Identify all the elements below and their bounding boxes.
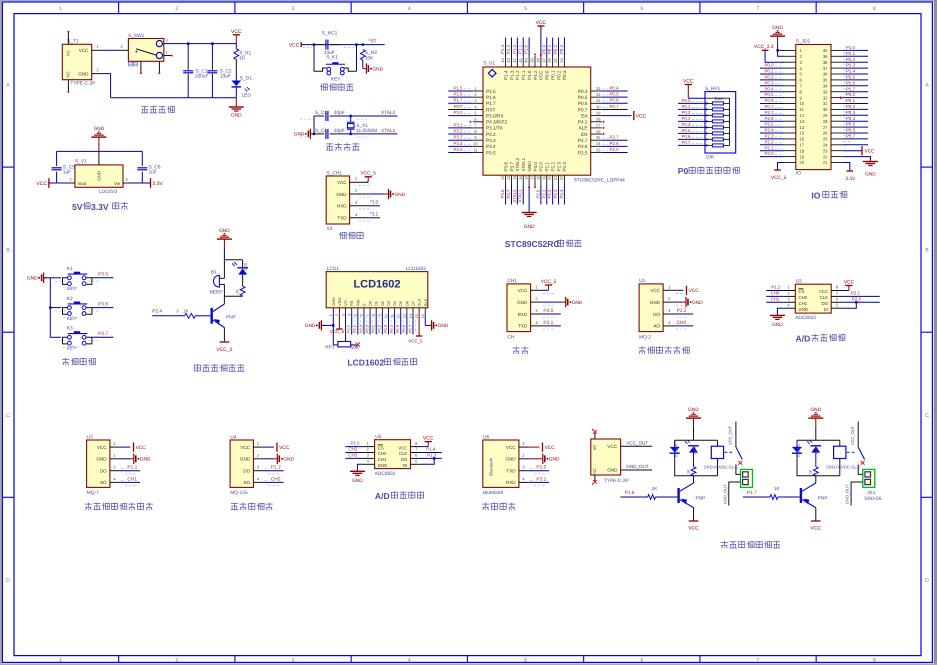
svg-text:P2.2: P2.2 <box>765 139 775 144</box>
relay coil 0 <box>711 446 723 458</box>
svg-text:4: 4 <box>408 6 411 12</box>
svg-text:CH1: CH1 <box>378 457 387 462</box>
svg-text:P2.1: P2.1 <box>765 145 775 150</box>
svg-text:P1.0: P1.0 <box>524 44 529 54</box>
svg-text:P1.4: P1.4 <box>426 447 436 452</box>
transistor Q0 collector <box>680 483 694 491</box>
adc U2 do wire <box>843 301 880 303</box>
connector S_T1 body <box>62 44 91 79</box>
connector JK122 wiring <box>858 465 863 475</box>
relay 122 base resistor <box>770 495 778 500</box>
svg-text:13: 13 <box>800 119 805 124</box>
svg-text:RXD: RXD <box>506 480 516 485</box>
svg-text:TXD: TXD <box>337 216 347 221</box>
svg-text:PNP: PNP <box>818 495 828 501</box>
svg-text:P3.0: P3.0 <box>543 308 553 314</box>
svg-text:GREEN: GREEN <box>675 444 679 457</box>
svg-text:P2.5: P2.5 <box>610 147 620 152</box>
svg-text:P1.3: P1.3 <box>509 70 514 80</box>
module U3 pin names <box>96 445 107 485</box>
power VCC <box>231 29 242 44</box>
svg-text:100uF: 100uF <box>195 74 209 80</box>
svg-text:Vout: Vout <box>78 181 88 186</box>
svg-text:VCC: VCC <box>811 526 822 532</box>
io left P2 wires <box>760 115 784 156</box>
svg-text:D: D <box>6 578 10 584</box>
svg-text:P1.4: P1.4 <box>846 69 856 74</box>
svg-text:RW: RW <box>355 299 360 306</box>
lcd pin16 wire <box>424 313 426 326</box>
io dashes <box>775 53 851 155</box>
svg-text:2: 2 <box>175 657 178 663</box>
svg-text:NC: NC <box>65 50 70 56</box>
svg-text:VCC: VCC <box>79 48 89 53</box>
svg-text:GND: GND <box>140 457 151 463</box>
svg-text:P4.2: P4.2 <box>533 70 538 80</box>
connector S_T1 bottom pin <box>67 80 69 92</box>
module U3 pin3 wire <box>119 470 140 472</box>
svg-text:P0.5: P0.5 <box>395 325 400 333</box>
svg-text:P0.4: P0.4 <box>681 122 691 127</box>
transistor Q1 emitter <box>213 320 225 328</box>
capacitor S_C1 branch <box>187 44 189 62</box>
svg-text:P2.1: P2.1 <box>851 290 861 295</box>
svg-text:8: 8 <box>372 314 376 316</box>
svg-text:GND: GND <box>772 322 783 328</box>
svg-text:D1: D1 <box>374 301 379 306</box>
svg-text:P0: P0 <box>678 166 689 176</box>
svg-text:P2.7: P2.7 <box>610 135 620 140</box>
svg-text:18: 18 <box>800 148 805 153</box>
svg-text:P2.7: P2.7 <box>578 138 588 143</box>
svg-text:*ST: *ST <box>369 38 377 44</box>
svg-text:28: 28 <box>823 119 828 124</box>
key K1 wiring <box>50 277 61 279</box>
svg-text:7: 7 <box>757 657 760 663</box>
svg-text:Com: Com <box>715 96 724 101</box>
key K3 contacts <box>68 335 72 339</box>
svg-text:5: 5 <box>354 314 358 316</box>
lcd pin3 wire <box>345 313 347 339</box>
svg-text:EA: EA <box>581 113 588 118</box>
svg-text:P2.6: P2.6 <box>578 144 588 149</box>
svg-text:P0.1: P0.1 <box>371 325 376 333</box>
transistor Q0 base bar <box>677 488 679 503</box>
svg-text:VCC: VCC <box>506 445 516 450</box>
relay 122 loop wiring <box>797 440 840 475</box>
svg-text:GND: GND <box>352 478 363 484</box>
connector JK122 pins <box>865 472 871 477</box>
mcu U1 diamond mark <box>488 69 496 77</box>
svg-text:DO: DO <box>822 301 829 306</box>
key K2 wiring <box>50 307 61 309</box>
buzzer B1 <box>213 275 219 287</box>
svg-text:39: 39 <box>823 54 828 59</box>
svg-text:P1.3: P1.3 <box>427 452 437 457</box>
svg-text:GND_OUT: GND_OUT <box>722 484 727 504</box>
ground io22 <box>863 161 878 178</box>
ground ldo <box>91 126 106 152</box>
svg-text:XTAL2: XTAL2 <box>381 110 396 116</box>
connector JK0 body <box>741 469 753 487</box>
diode D122 <box>796 440 798 447</box>
transistor Q122 collector <box>802 483 816 491</box>
ground U6 <box>539 454 560 464</box>
svg-text:P3.0: P3.0 <box>846 92 856 97</box>
svg-text:VCC: VCC <box>337 180 347 185</box>
svg-text:P3.5: P3.5 <box>846 122 856 127</box>
svg-text:D5: D5 <box>398 301 403 306</box>
caption 5V to 3.3V <box>72 202 128 212</box>
svg-text:17: 17 <box>800 143 805 148</box>
svg-text:P0.2: P0.2 <box>556 70 561 80</box>
wire vout <box>57 182 68 184</box>
capacitor S_RC1 <box>314 44 324 46</box>
svg-text:P1.4: P1.4 <box>500 44 505 54</box>
svg-text:VCC: VCC <box>683 79 694 85</box>
svg-text:17: 17 <box>530 175 535 180</box>
svg-text:KEY: KEY <box>67 346 77 352</box>
svg-text:P3.1: P3.1 <box>846 98 856 103</box>
svg-text:P0.4: P0.4 <box>610 85 620 90</box>
svg-text:6: 6 <box>640 657 643 663</box>
svg-text:P2.0: P2.0 <box>535 189 540 199</box>
resistor 1K relay 0 <box>691 467 696 476</box>
svg-text:25: 25 <box>823 137 828 142</box>
relay 0 loop wiring <box>675 440 718 475</box>
module U4 gnd wire <box>263 458 274 460</box>
svg-text:10: 10 <box>473 141 478 146</box>
svg-text:GND: GND <box>231 113 242 119</box>
adc U5 clk wire <box>422 452 441 454</box>
relay 122 nc cross <box>861 461 865 465</box>
svg-text:P3.2: P3.2 <box>846 104 856 109</box>
svg-text:VCC_5: VCC_5 <box>408 339 423 344</box>
svg-text:34: 34 <box>559 58 564 63</box>
caption io port <box>811 190 847 200</box>
junction crystal left <box>313 133 315 135</box>
svg-text:23: 23 <box>823 148 828 153</box>
svg-text:KEY: KEY <box>331 76 341 82</box>
svg-text:36: 36 <box>547 58 552 63</box>
svg-text:40: 40 <box>823 48 828 53</box>
svg-text:DO: DO <box>401 457 408 462</box>
switch label kaiguan <box>129 62 133 66</box>
relay 122 common wire <box>857 422 859 447</box>
svg-text:1K: 1K <box>239 56 246 62</box>
connector JK0 pins <box>743 472 749 477</box>
svg-text:S_C1: S_C1 <box>196 68 208 74</box>
svg-text:GND: GND <box>336 192 347 197</box>
svg-text:U3: U3 <box>87 434 93 440</box>
ground serial <box>562 297 583 307</box>
caption U4 <box>231 503 273 511</box>
lcd data wires <box>352 313 413 335</box>
svg-text:GND: GND <box>799 307 809 312</box>
svg-text:3: 3 <box>341 314 345 316</box>
svg-text:GND: GND <box>96 457 107 462</box>
svg-text:1uF: 1uF <box>63 169 71 175</box>
adc U2 left wires <box>766 290 783 292</box>
svg-text:P1.5: P1.5 <box>351 441 361 446</box>
crystal S_X1 <box>347 121 355 123</box>
svg-text:Bluetooth: Bluetooth <box>483 490 504 496</box>
wire R2 to gnd <box>362 60 364 69</box>
svg-text:DO: DO <box>100 469 107 474</box>
ldo left branch <box>56 151 58 162</box>
rp1 resistors <box>706 102 729 147</box>
key K2 bar <box>68 303 87 305</box>
mcu right pin dashes <box>603 89 609 151</box>
module U3 body <box>87 440 110 487</box>
wire LED to GND <box>235 87 237 98</box>
svg-text:VCC_5: VCC_5 <box>330 329 345 334</box>
svg-text:AO: AO <box>653 324 660 329</box>
svg-text:VCC: VCC <box>136 445 147 451</box>
svg-text:VO: VO <box>343 300 348 306</box>
svg-text:CH0: CH0 <box>378 451 387 456</box>
svg-text:5: 5 <box>524 657 527 663</box>
svg-text:P0.0: P0.0 <box>364 324 369 333</box>
junction xtal2 <box>350 115 352 117</box>
svg-text:MQ-2: MQ-2 <box>639 334 651 340</box>
power VCC relay 0 <box>689 520 699 522</box>
adc U5 left wires <box>345 446 362 448</box>
mcu right pin names <box>578 89 589 156</box>
svg-text:21: 21 <box>823 160 828 165</box>
svg-text:CH0: CH0 <box>771 290 780 295</box>
svg-text:K3: K3 <box>67 326 73 332</box>
svg-text:P3.5: P3.5 <box>453 147 463 152</box>
svg-text:GND: GND <box>94 126 105 132</box>
power VCC_5 serial <box>541 279 557 291</box>
svg-text:VCC: VCC <box>36 181 47 187</box>
io gnd22 wire <box>843 157 871 161</box>
svg-text:11.0592M: 11.0592M <box>356 128 377 134</box>
svg-text:RST: RST <box>486 107 496 112</box>
svg-text:JK1: JK1 <box>867 490 876 496</box>
mq2 ao wire <box>676 325 694 327</box>
xtal1 row <box>314 133 324 135</box>
caption p0 pullup <box>678 166 740 176</box>
lcd data labels <box>346 324 412 333</box>
svg-text:21: 21 <box>553 175 558 180</box>
serial txd wire <box>543 325 561 327</box>
svg-text:5V: 5V <box>72 202 83 212</box>
svg-text:KEY: KEY <box>67 286 77 292</box>
svg-text:XTAL1: XTAL1 <box>521 157 526 171</box>
svg-text:VCC_5: VCC_5 <box>541 279 557 285</box>
svg-text:P1.6: P1.6 <box>453 92 463 97</box>
svg-text:35: 35 <box>553 58 558 63</box>
caption adc2 <box>375 491 424 501</box>
relay 0 common wire <box>735 422 737 447</box>
adc U5 gnd wire <box>357 464 362 470</box>
power VCC_5 dl <box>360 171 376 183</box>
svg-text:BLA: BLA <box>417 298 422 306</box>
svg-text:VCC_3.3: VCC_3.3 <box>754 44 774 50</box>
adc U5 body <box>375 440 411 469</box>
svg-text:P0.7: P0.7 <box>765 104 775 109</box>
svg-text:P4.1: P4.1 <box>578 120 588 125</box>
power VCC adc U5 <box>423 436 434 447</box>
svg-text:GND: GND <box>305 323 316 329</box>
module U6 pin3 wire <box>528 470 549 472</box>
svg-text:P0.6: P0.6 <box>578 101 588 106</box>
svg-text:27: 27 <box>823 125 828 130</box>
mcu left pin names <box>486 89 507 156</box>
svg-text:S_C2: S_C2 <box>220 68 232 74</box>
rp1 nc cross <box>356 342 360 346</box>
module U3 gnd wire <box>119 458 130 460</box>
svg-text:P0.0: P0.0 <box>765 63 775 68</box>
ground crystal <box>294 129 314 139</box>
svg-text:10K: 10K <box>365 56 374 62</box>
svg-text:35: 35 <box>823 78 828 83</box>
svg-text:ADC0832: ADC0832 <box>795 315 816 321</box>
svg-text:LCD1602: LCD1602 <box>406 266 427 272</box>
resistor 1K relay 122 <box>813 467 818 476</box>
ground U4 <box>274 454 295 464</box>
svg-text:P1.5: P1.5 <box>486 89 496 94</box>
module U3 pin stubs <box>110 441 120 482</box>
svg-text:37: 37 <box>823 66 828 71</box>
svg-text:CLK: CLK <box>820 295 828 300</box>
connector S_JD1 pins <box>784 48 843 165</box>
alarm top node <box>224 259 242 261</box>
module U4 pin stubs <box>253 441 263 482</box>
relay 0 nc cross <box>738 461 742 465</box>
xtal2 row <box>314 115 321 117</box>
rp1 comb wire <box>706 98 729 145</box>
svg-text:TYPE-C-2P: TYPE-C-2P <box>604 478 629 484</box>
svg-text:K2: K2 <box>67 296 73 302</box>
rp1 dashes <box>692 102 702 144</box>
svg-text:30pF: 30pF <box>334 110 345 116</box>
svg-text:U4: U4 <box>230 434 236 440</box>
transistor Q122 emitter wire <box>815 508 817 520</box>
connector relay TYPE-C top pin <box>594 433 596 439</box>
svg-text:P1.2: P1.2 <box>515 70 520 80</box>
svg-text:30pF: 30pF <box>334 128 345 134</box>
svg-text:P2.5: P2.5 <box>578 150 588 155</box>
svg-text:P2.3: P2.3 <box>556 162 561 172</box>
svg-text:LCD1602: LCD1602 <box>347 358 384 368</box>
key K3 wiring <box>50 336 61 338</box>
key K2 contacts <box>68 306 72 310</box>
svg-text:LED: LED <box>693 446 697 453</box>
svg-text:P1.1: P1.1 <box>518 44 523 54</box>
serial gnd wire <box>543 301 563 303</box>
module U1 pin names <box>650 288 661 329</box>
svg-text:KEY: KEY <box>67 316 77 322</box>
svg-text:C: C <box>6 413 10 419</box>
svg-text:P2.1: P2.1 <box>545 162 550 172</box>
svg-text:E: E <box>361 303 366 306</box>
adc U2 pin stubs <box>783 285 843 309</box>
ldo right branch <box>141 151 143 162</box>
transistor Q0 emitter <box>680 500 694 508</box>
key K1 contacts <box>68 276 72 280</box>
ground reset <box>363 63 384 73</box>
svg-text:GND: GND <box>810 407 821 413</box>
svg-text:D3: D3 <box>386 301 391 306</box>
window edge right <box>934 0 937 665</box>
svg-text:CLK: CLK <box>399 451 407 456</box>
svg-text:GND: GND <box>527 161 532 172</box>
svg-text:P0.2: P0.2 <box>681 110 691 115</box>
svg-text:P1.6: P1.6 <box>846 80 856 85</box>
svg-text:1: 1 <box>59 6 62 12</box>
caption lcd <box>347 358 416 368</box>
module U4 pin3 wire <box>263 470 284 472</box>
svg-text:RP1: RP1 <box>325 345 335 351</box>
svg-text:DO: DO <box>653 312 660 317</box>
svg-text:VDD: VDD <box>337 298 342 306</box>
svg-text:TXD: TXD <box>506 469 516 474</box>
caption relay control <box>721 541 781 549</box>
svg-text:Vin: Vin <box>114 181 121 186</box>
svg-text:RS: RS <box>349 300 354 306</box>
adc U5 di wire <box>422 458 434 464</box>
capacitor S_C1 <box>183 70 193 72</box>
alarm res to node <box>242 295 244 298</box>
switch S_SW1 contacts <box>156 41 162 47</box>
svg-text:STC89C52RC: STC89C52RC <box>505 239 560 249</box>
svg-text:20: 20 <box>547 175 552 180</box>
connector S_CH1 body <box>326 176 349 224</box>
alarm LED <box>237 267 248 269</box>
svg-text:1K: 1K <box>774 486 781 491</box>
io pin24 wire <box>843 144 868 146</box>
svg-text:28: 28 <box>596 117 601 122</box>
svg-text:43: 43 <box>506 58 511 63</box>
svg-text:P1.2: P1.2 <box>846 57 856 62</box>
io left P0 wires <box>760 68 784 109</box>
ground U3 <box>130 454 151 464</box>
svg-text:P0.5: P0.5 <box>610 92 620 97</box>
svg-text:P3.4: P3.4 <box>486 144 496 149</box>
alarm bottom node <box>224 295 242 297</box>
svg-text:19: 19 <box>800 154 805 159</box>
adc U2 di wire <box>843 302 856 308</box>
svg-text:15: 15 <box>800 131 805 136</box>
svg-text:P3.2: P3.2 <box>453 128 463 133</box>
mcu bottom pin numbers and labels <box>500 175 564 203</box>
svg-text:GND: GND <box>688 407 699 413</box>
ldo top rail <box>57 150 143 152</box>
svg-text:P0.1: P0.1 <box>765 69 775 74</box>
svg-text:VCC: VCC <box>819 289 828 294</box>
svg-text:13: 13 <box>506 175 511 180</box>
relay 122 dashed link <box>847 451 856 453</box>
module U3 pin4 wire <box>119 481 140 483</box>
mcu U1 body <box>483 67 591 175</box>
svg-text:BLK: BLK <box>423 298 428 306</box>
svg-text:33: 33 <box>596 86 601 91</box>
transistor Q122 emitter <box>802 500 816 508</box>
capacitor S_C3 <box>325 111 327 121</box>
svg-text:42: 42 <box>512 58 517 63</box>
lcd dashes <box>354 316 415 333</box>
svg-text:6: 6 <box>640 6 643 12</box>
caption U3 <box>85 503 153 511</box>
relay coil 122 <box>834 446 846 458</box>
svg-text:D: D <box>925 578 929 584</box>
alarm base resistor <box>185 313 196 318</box>
LED L0 <box>688 445 699 447</box>
svg-text:VCC: VCC <box>518 288 528 293</box>
